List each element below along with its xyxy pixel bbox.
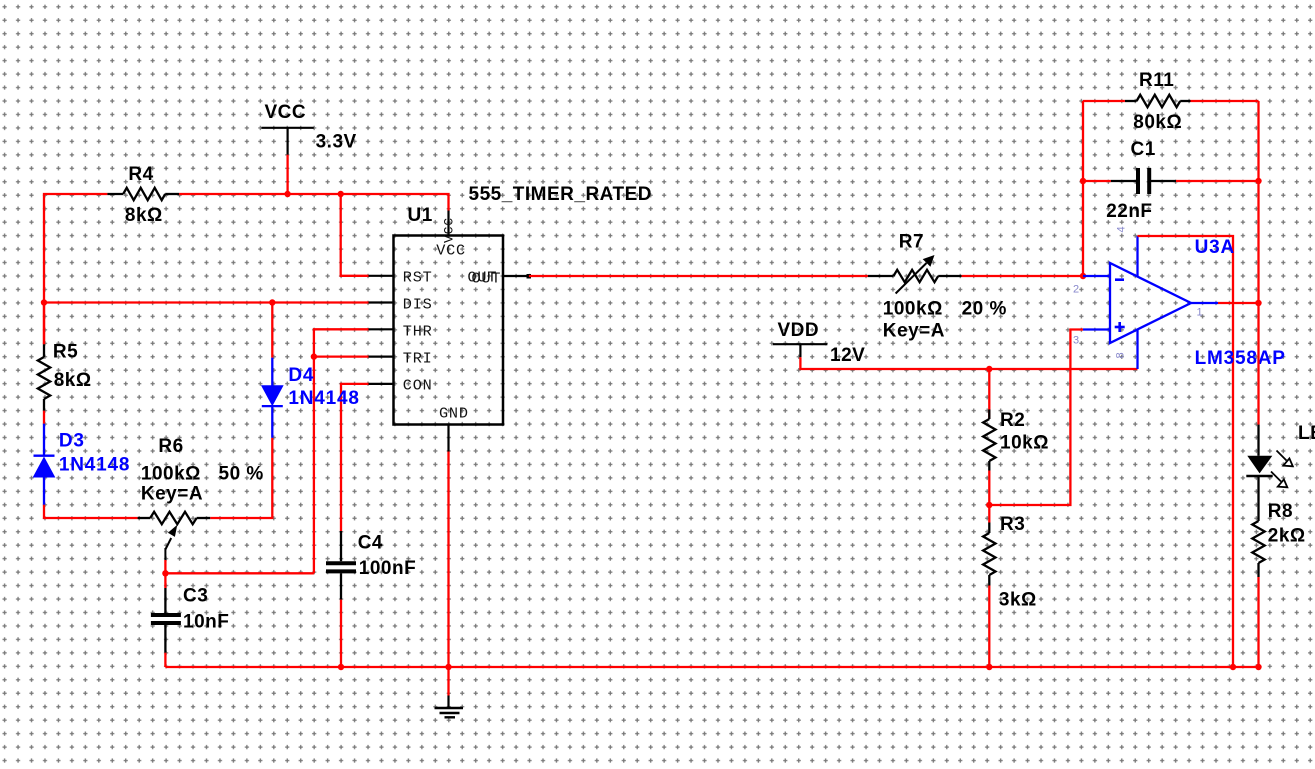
wire R8 bottom — [1257, 577, 1259, 667]
svg-text:RST: RST — [403, 269, 433, 287]
svg-text:THR: THR — [403, 323, 433, 341]
wire R5-D3 — [43, 411, 45, 424]
svg-text:2kΩ: 2kΩ — [1268, 526, 1306, 547]
capacitor C1 — [1111, 180, 1136, 182]
svg-text:GND: GND — [439, 405, 469, 423]
op-amp minus input stub — [1083, 275, 1110, 277]
wire R6 right — [210, 438, 272, 518]
wire GND drop — [447, 452, 449, 696]
svg-text:VDD: VDD — [778, 320, 820, 341]
op-amp pin8 stub — [1136, 329, 1138, 369]
junction DIS D4 — [269, 299, 275, 305]
svg-text:2: 2 — [1073, 284, 1079, 296]
svg-text:100kΩ: 100kΩ — [141, 463, 201, 484]
wire feedback right vertical — [1257, 101, 1259, 303]
R6 wiper arrow — [164, 548, 166, 560]
junction C4 rail — [338, 664, 344, 670]
wire D4 top — [271, 303, 273, 358]
potentiometer R6 — [138, 517, 151, 519]
LED arrow 2 — [1271, 472, 1281, 482]
svg-text:50 %: 50 % — [219, 463, 264, 484]
wire LED top — [1257, 303, 1259, 425]
diode D3 — [43, 424, 45, 456]
wire RST — [341, 194, 369, 276]
junction VDD R2 — [986, 366, 992, 372]
svg-text:DIS: DIS — [403, 296, 433, 314]
svg-text:1N4148: 1N4148 — [288, 388, 359, 409]
resistor R2 — [988, 410, 990, 420]
wire R5 top — [43, 303, 45, 345]
wire C1 left — [1083, 180, 1111, 182]
svg-text:12V: 12V — [830, 345, 865, 366]
svg-text:Key=A: Key=A — [141, 484, 203, 505]
wire feedback top — [1083, 100, 1125, 102]
svg-text:10nF: 10nF — [183, 612, 229, 633]
svg-text:D4: D4 — [288, 365, 314, 386]
svg-text:Key=A: Key=A — [883, 321, 945, 342]
junction output — [1255, 300, 1261, 306]
svg-text:D3: D3 — [59, 431, 85, 452]
svg-text:OUT: OUT — [472, 269, 502, 287]
wire TRI — [314, 355, 369, 357]
svg-text:R6: R6 — [158, 436, 183, 457]
junction GND rail — [445, 664, 451, 670]
power VCC symbol — [261, 127, 313, 129]
svg-text:8kΩ: 8kΩ — [54, 370, 92, 391]
junction RST tap — [338, 191, 344, 197]
svg-text:R8: R8 — [1268, 501, 1293, 522]
wire pin4 to rail — [1138, 236, 1234, 667]
junction pin4 rail — [1230, 664, 1236, 670]
wire VDD drop — [800, 357, 1137, 369]
wire C3 top — [164, 560, 166, 588]
resistor R11 — [1125, 100, 1137, 102]
R7 wiper arrow — [896, 263, 927, 294]
pin GND stub — [447, 425, 449, 452]
wire C3 bottom — [164, 653, 166, 667]
svg-text:VCC: VCC — [265, 102, 307, 123]
svg-text:U1: U1 — [408, 205, 433, 226]
svg-text:100nF: 100nF — [359, 558, 416, 579]
wire CON — [341, 384, 369, 531]
svg-text:C4: C4 — [358, 533, 383, 554]
wire bottom rail — [165, 666, 1258, 668]
capacitor C3 — [164, 588, 166, 613]
pin TRI stub — [369, 356, 394, 358]
op-amp pin4 stub — [1136, 236, 1138, 277]
svg-text:VCC: VCC — [436, 242, 466, 260]
junction DIS left — [41, 299, 47, 305]
wire plus input — [989, 330, 1083, 506]
junction R8 rail — [1255, 664, 1261, 670]
wire R3 top — [988, 505, 990, 523]
wire feedback left vertical — [1082, 101, 1084, 276]
op-amp output stub — [1191, 302, 1218, 304]
svg-text:8kΩ: 8kΩ — [125, 205, 163, 226]
junction VCC/top rail — [284, 191, 290, 197]
op-amp plus sign — [1115, 326, 1125, 329]
svg-text:10kΩ: 10kΩ — [1000, 433, 1049, 454]
svg-text:3kΩ: 3kΩ — [999, 590, 1037, 611]
wire DIS row — [44, 301, 369, 303]
pin RST stub — [369, 275, 394, 277]
LED arrow 1 — [1277, 451, 1287, 461]
wire VCC drop — [286, 155, 288, 194]
wire C4 bottom — [340, 600, 342, 667]
junction R2 R3 — [986, 502, 992, 508]
junction op-amp minus node — [1080, 273, 1086, 279]
LED LED1 — [1257, 425, 1259, 456]
power VDD symbol — [773, 343, 828, 345]
junction TRI tap — [311, 353, 317, 359]
svg-text:555_TIMER_RATED: 555_TIMER_RATED — [469, 184, 652, 205]
svg-text:8: 8 — [1115, 352, 1127, 358]
ground symbol — [447, 696, 449, 709]
svg-text:LED1: LED1 — [1298, 423, 1315, 444]
pin DIS stub — [369, 301, 394, 303]
svg-text:3: 3 — [1073, 335, 1079, 347]
capacitor C4 — [340, 531, 342, 561]
junction C1 right — [1255, 178, 1261, 184]
wire top rail left — [44, 194, 107, 344]
resistor R8 — [1252, 521, 1264, 563]
svg-text:80kΩ: 80kΩ — [1133, 112, 1182, 133]
svg-text:CON: CON — [403, 377, 433, 395]
op-amp plus input stub — [1083, 328, 1110, 330]
svg-text:22nF: 22nF — [1106, 201, 1152, 222]
IC U1 555 box — [394, 236, 504, 425]
pin CON stub — [369, 383, 394, 385]
wire THR — [314, 329, 369, 573]
resistor R5 — [43, 344, 45, 357]
svg-text:20 %: 20 % — [962, 299, 1007, 320]
pin OUT stub — [503, 275, 529, 277]
wire top rail right — [179, 194, 448, 211]
svg-text:U3A: U3A — [1195, 237, 1235, 258]
wire D3-R6 corner — [44, 505, 138, 518]
op-amp minus sign — [1115, 278, 1124, 281]
svg-text:1N4148: 1N4148 — [59, 454, 130, 475]
svg-text:R4: R4 — [128, 164, 153, 185]
svg-text:R3: R3 — [1000, 514, 1025, 535]
svg-text:4: 4 — [1116, 226, 1128, 232]
svg-text:R2: R2 — [1000, 410, 1025, 431]
op-amp U3A triangle — [1110, 263, 1191, 343]
pin OUT end square — [527, 274, 532, 279]
svg-text:100kΩ: 100kΩ — [883, 299, 943, 320]
svg-text:VCC: VCC — [442, 217, 457, 243]
svg-text:R7: R7 — [899, 232, 924, 253]
pin THR stub — [369, 328, 394, 330]
wire wiper row — [165, 572, 314, 574]
wire R2 bottom — [988, 471, 990, 506]
svg-text:R11: R11 — [1139, 70, 1174, 91]
resistor R4 — [107, 193, 123, 195]
svg-text:TRI: TRI — [403, 350, 433, 368]
pin VCC stub U1 — [447, 211, 449, 236]
svg-text:LM358AP: LM358AP — [1195, 348, 1286, 369]
resistor R3 — [988, 523, 990, 534]
wire output — [1218, 302, 1259, 304]
svg-text:1: 1 — [1197, 307, 1203, 319]
wire OUT right — [962, 275, 1083, 277]
wire OUT left — [529, 275, 868, 277]
svg-text:C1: C1 — [1131, 139, 1156, 160]
diode D4 — [271, 406, 273, 438]
wire R2 top — [988, 369, 990, 419]
wire R3 bottom — [988, 586, 990, 668]
junction wiper C3 — [162, 570, 168, 576]
svg-text:3.3V: 3.3V — [316, 132, 357, 153]
junction R3 rail — [986, 664, 992, 670]
svg-text:C3: C3 — [183, 586, 208, 607]
potentiometer R7 — [868, 275, 894, 277]
junction C1 left — [1080, 178, 1086, 184]
wire C1 right — [1176, 180, 1259, 182]
svg-text:R5: R5 — [53, 341, 78, 362]
